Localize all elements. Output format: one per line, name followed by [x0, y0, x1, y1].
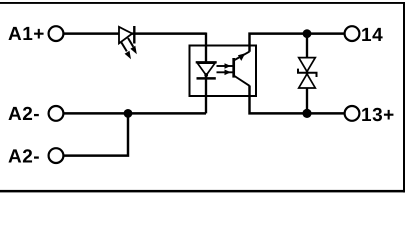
- svg-text:A1+: A1+: [8, 24, 45, 45]
- wire second A2- up to junction: [64, 113, 128, 155]
- svg-text:A2-: A2-: [8, 104, 40, 125]
- terminal A2- (first): [49, 106, 64, 121]
- optocoupler U1 box: [190, 46, 257, 97]
- wire emitter to terminal 13+: [250, 86, 345, 114]
- light coupling arrows: [217, 63, 233, 75]
- wire A1+ to optocoupler LED anode: [64, 33, 207, 114]
- svg-text:A2-: A2-: [8, 146, 40, 167]
- junction node 14 line: [303, 29, 312, 38]
- svg-text:13+: 13+: [361, 105, 395, 126]
- svg-text:14: 14: [361, 25, 383, 46]
- LED indicator on input: [119, 26, 137, 59]
- junction node 13+ line: [302, 109, 311, 118]
- wire collector to terminal 14: [250, 34, 345, 52]
- phototransistor Q1: [234, 52, 250, 86]
- terminal A1+: [49, 26, 64, 41]
- terminal A2- (second): [49, 148, 64, 163]
- junction node A2 bus: [124, 109, 133, 118]
- suppressor diode (bidirectional transil): [298, 58, 317, 88]
- optocoupler LED: [196, 62, 217, 78]
- terminal 13+: [345, 106, 360, 121]
- wire A2- to optocoupler LED cathode: [64, 112, 206, 114]
- terminal 14: [345, 26, 360, 41]
- wire suppressor branch: [306, 34, 308, 114]
